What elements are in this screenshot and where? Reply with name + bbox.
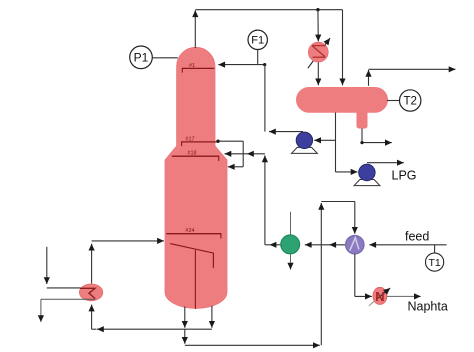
tray #24 [166,228,221,238]
wire bottoms header [92,328,212,330]
wire condenser utility arrow [308,38,330,68]
svg-text:T1: T1 [428,257,440,269]
reboiler E2 [79,284,102,301]
wire distributor mid branch [225,153,265,155]
wire drum bottom line [335,113,337,172]
pump P-2 [354,164,380,185]
wire pump2 discharge LPG [367,162,404,164]
wire naphta outlet [387,295,421,297]
svg-text:P1: P1 [134,51,149,65]
wire reboiler return [92,241,164,284]
wire F1 stem [257,50,259,65]
condenser E1 [308,42,328,62]
wire reflux riser [264,65,266,132]
wire green to riser [265,244,281,246]
wire drum vapor out [369,69,456,86]
mixer M2 purple [346,236,364,254]
wire green mixer stem top [290,212,292,235]
instrument P1 [130,46,153,69]
drum D1 [296,87,388,113]
svg-text:Naphta: Naphta [408,299,448,313]
wire pump1 discharge [269,131,303,133]
wire bottoms outlet right [211,306,213,328]
wire bottoms outlet left [184,307,186,328]
wire reboiler utility in [47,247,81,288]
svg-text:#18: #18 [187,151,196,157]
wire condenser inlet [317,10,319,42]
tray #18 [172,151,219,161]
tray #17 [181,136,218,146]
svg-text:#1: #1 [189,63,195,69]
svg-text:T2: T2 [403,96,416,108]
wire purple to naphta valve [355,254,372,297]
column C1 shell [165,47,227,308]
valve N naphta [369,287,390,306]
svg-text:#24: #24 [185,228,194,234]
wire distributor top branch [216,140,243,143]
instrument F1 [248,30,267,49]
wire reboiler utility out [41,299,95,322]
wire condenser outlet [317,62,319,85]
wire pump2 suction [336,171,358,173]
tray #1 [182,63,215,73]
wire T1 stem [434,245,436,253]
wire drum nozzle outlet [360,128,391,144]
wire pump1 suction [314,139,335,141]
wire feed distributor riser [264,155,266,244]
node reflux corner [263,63,266,66]
instrument T2 [400,90,421,111]
mixer M1 green [281,235,300,254]
wire bottoms recycle riser [321,202,355,346]
column internal downcomer line [194,250,196,309]
wire feed line [369,244,446,246]
node condenser branch junction [316,8,319,11]
wire distributor bottom branch [228,166,243,168]
svg-text:LPG: LPG [392,169,417,183]
wire reboiler feed riser [91,305,93,330]
column internal diagonal [170,244,213,268]
svg-text:feed: feed [405,230,429,244]
wire column top riser [195,10,342,86]
svg-text:#17: #17 [185,136,194,142]
drum nozzle [357,110,368,129]
wire purple to green [305,244,346,246]
wire bottoms transfer [185,329,320,345]
wire P1 stem [152,57,177,59]
wire green mixer stem bottom [290,254,292,270]
instrument T1 [426,253,444,271]
svg-text:F1: F1 [251,35,264,47]
svg-text:N: N [375,289,384,304]
wire T2 stem [387,100,400,102]
wire distributor vertical [242,141,244,167]
pump P-1 [292,132,318,153]
wire reflux return to tray 1 [218,64,265,66]
